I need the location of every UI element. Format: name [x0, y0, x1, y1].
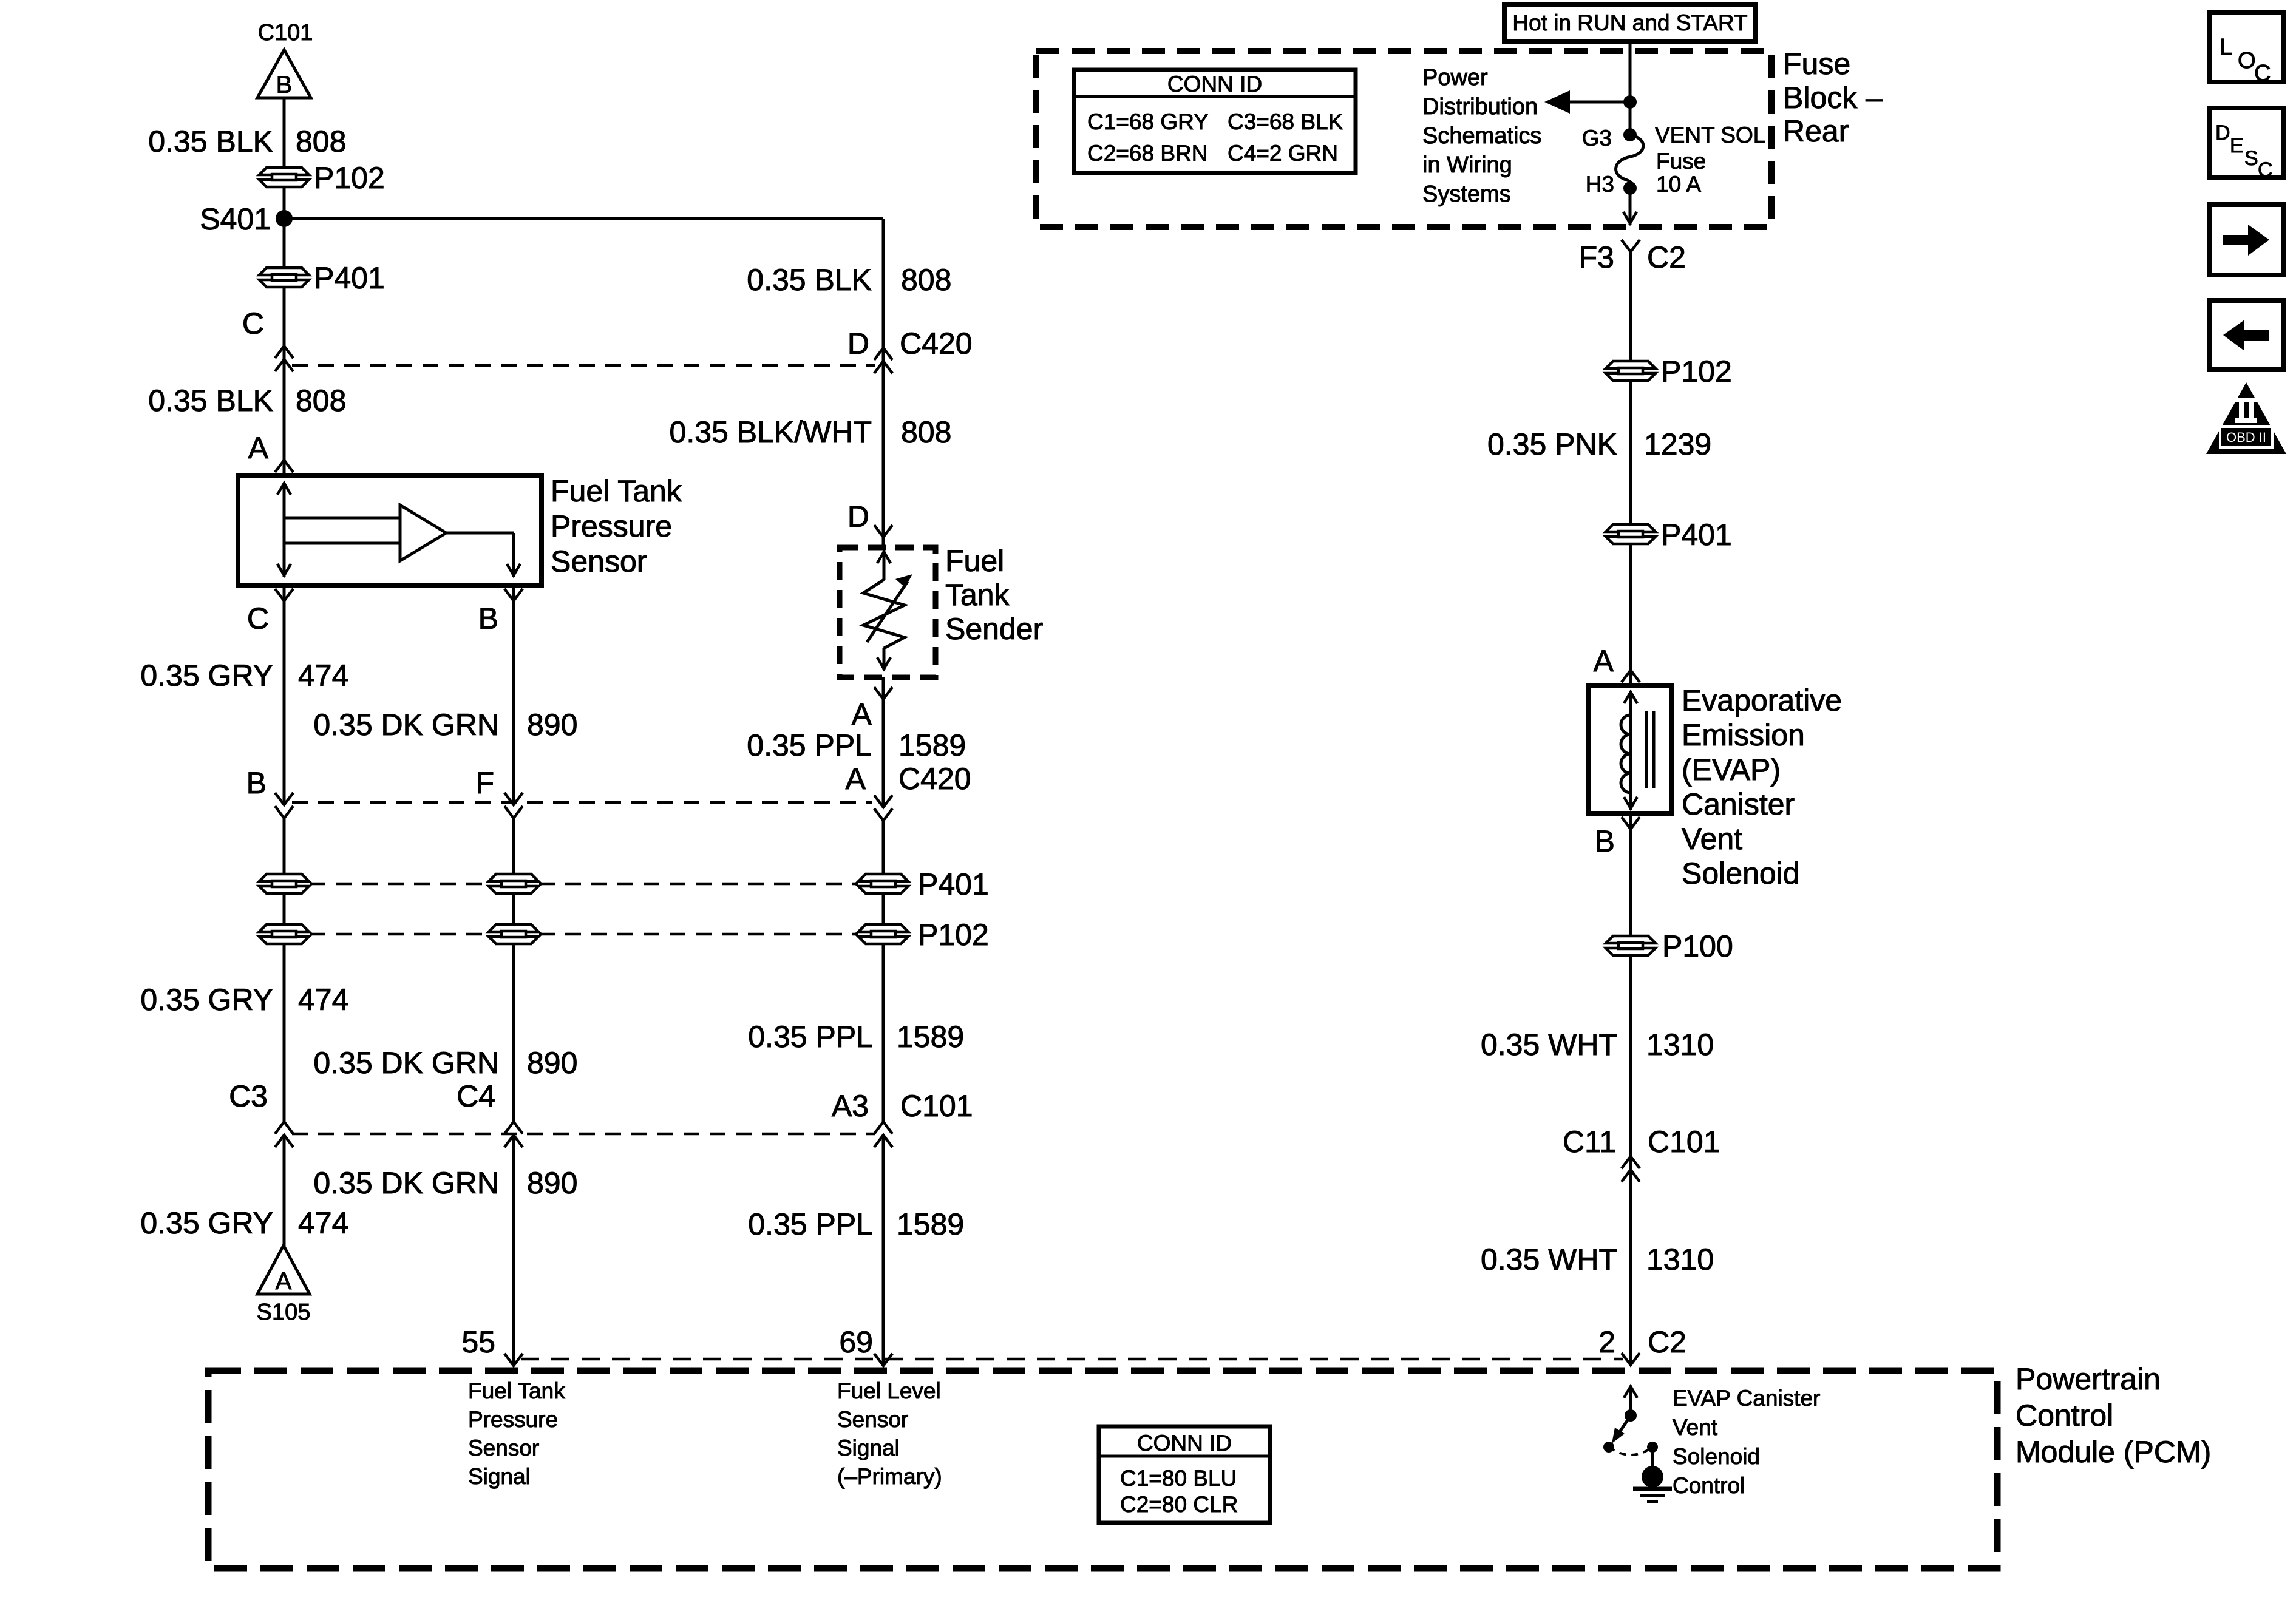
- svg-text:0.35 BLK: 0.35 BLK: [148, 124, 273, 158]
- PCM connector face dashed line: [521, 1358, 1623, 1361]
- wire label 0.35 DK GRN 890 (row1): [313, 708, 577, 742]
- wire label 0.35 PPL 1589 (row3): [748, 1207, 964, 1241]
- svg-text:0.35 DK GRN: 0.35 DK GRN: [313, 1046, 499, 1080]
- svg-text:C3=68 BLK: C3=68 BLK: [1228, 109, 1343, 134]
- wire label 0.35 PPL 1589 (row1): [747, 728, 966, 762]
- pin 55 (PCM fuel tank pressure signal): [461, 1325, 523, 1366]
- power distribution note: [1422, 65, 1541, 207]
- svg-text:474: 474: [298, 983, 348, 1017]
- svg-text:Control: Control: [1673, 1473, 1745, 1498]
- wire label 0.35 GRY 474 (row3): [140, 1206, 348, 1240]
- pin F at C420 (mid): [475, 766, 523, 818]
- svg-text:0.35 PPL: 0.35 PPL: [748, 1207, 873, 1241]
- margin icon OBD II triangle: [2206, 382, 2286, 454]
- svg-text:0.35 WHT: 0.35 WHT: [1481, 1028, 1617, 1062]
- wire from fuse to F3 with arrow: [1623, 188, 1637, 225]
- svg-text:1310: 1310: [1646, 1028, 1714, 1062]
- svg-text:474: 474: [298, 659, 348, 693]
- svg-text:Hot in RUN and START: Hot in RUN and START: [1512, 10, 1747, 35]
- connector P401 (fuel level wire): [858, 867, 989, 901]
- svg-text:C2=68 BRN: C2=68 BRN: [1087, 141, 1207, 166]
- svg-text:0.35 GRY: 0.35 GRY: [140, 983, 273, 1017]
- conn id table (fuse block): [1074, 70, 1356, 173]
- pin 69 (PCM fuel level signal): [839, 1325, 892, 1366]
- arrow to power distribution: [1544, 90, 1637, 114]
- PCM switch label EVAP canister vent solenoid control: [1673, 1386, 1820, 1498]
- conn id table (PCM): [1099, 1426, 1270, 1523]
- pin F3 at C2: [1579, 240, 1686, 274]
- svg-text:Signal: Signal: [837, 1436, 900, 1460]
- svg-text:D: D: [2215, 121, 2230, 144]
- svg-text:Block –: Block –: [1783, 81, 1883, 115]
- svg-text:S105: S105: [257, 1300, 311, 1325]
- svg-text:C2: C2: [1648, 1325, 1686, 1359]
- svg-text:A: A: [248, 431, 269, 465]
- svg-text:OBD II: OBD II: [2226, 430, 2266, 445]
- pin C of sensor: [247, 589, 293, 636]
- svg-text:1310: 1310: [1646, 1242, 1714, 1276]
- svg-text:69: 69: [839, 1325, 873, 1359]
- PCM label: [2016, 1362, 2211, 1469]
- wire label 0.35 GRY 474 (row1): [140, 659, 348, 693]
- svg-text:CONN ID: CONN ID: [1137, 1431, 1232, 1456]
- wire PPL 1589 from sender to C420: [882, 677, 885, 807]
- svg-text:C: C: [2254, 61, 2271, 86]
- pin A of fuel tank sender: [852, 687, 892, 731]
- connector P102 (left): [259, 161, 385, 195]
- svg-text:1589: 1589: [898, 728, 966, 762]
- svg-text:Pressure: Pressure: [551, 509, 672, 543]
- svg-text:C101: C101: [900, 1089, 973, 1123]
- svg-text:Power: Power: [1422, 65, 1488, 90]
- connector P401 (right): [1606, 518, 1732, 552]
- wire label 0.35 DK GRN 890 (row3): [313, 1166, 577, 1200]
- wire label 0.35 WHT 1310 (row2): [1481, 1242, 1714, 1276]
- wire label 0.35 WHT 1310 (row1): [1481, 1028, 1714, 1062]
- svg-text:H3: H3: [1586, 172, 1614, 197]
- wire label 0.35 BLK 808 (upper): [148, 124, 346, 158]
- svg-text:P401: P401: [314, 261, 385, 295]
- margin icon DESC: [2209, 108, 2283, 181]
- svg-text:Module (PCM): Module (PCM): [2016, 1435, 2211, 1469]
- svg-text:0.35 DK GRN: 0.35 DK GRN: [313, 1166, 499, 1200]
- wire label 0.35 BLK 808 (lower): [148, 384, 346, 418]
- svg-text:S401: S401: [200, 202, 271, 236]
- connector P401 (left): [259, 261, 385, 295]
- svg-text:1589: 1589: [897, 1207, 964, 1241]
- wire DK GRN 890 from sensor B to C420: [512, 585, 515, 805]
- ground triangle S105 (to A): [257, 1246, 311, 1325]
- wire label 0.35 GRY 474 (row2): [140, 983, 348, 1017]
- ground symbol inside PCM: [1633, 1447, 1672, 1502]
- svg-text:EVAP Canister: EVAP Canister: [1673, 1386, 1820, 1411]
- wire PPL from C420 to C101: [882, 821, 885, 1123]
- fuel tank sender label: [945, 544, 1043, 646]
- svg-text:0.35 BLK: 0.35 BLK: [148, 384, 273, 418]
- svg-text:Pressure: Pressure: [468, 1407, 558, 1432]
- svg-text:B: B: [276, 72, 293, 98]
- svg-text:O: O: [2238, 48, 2256, 73]
- wire label 0.35 BLK 808 (branch): [747, 263, 951, 297]
- svg-text:A: A: [852, 697, 872, 731]
- wire label 0.35 PNK 1239: [1487, 427, 1711, 461]
- splice S401: [200, 202, 293, 236]
- svg-text:C420: C420: [900, 327, 973, 361]
- svg-text:Fuel Level: Fuel Level: [837, 1378, 941, 1403]
- pin B of vent solenoid: [1595, 817, 1640, 858]
- pin C4 at C101: [457, 1079, 523, 1147]
- hot in run and start box: [1504, 4, 1756, 41]
- wire BLK 808 from C101 to sensor (left vertical): [283, 98, 286, 475]
- pin D at C420 (branch): [847, 327, 973, 373]
- fuse VENT SOL 10A: [1616, 128, 1643, 195]
- wire label 0.35 PPL 1589 (row2): [748, 1020, 964, 1054]
- powertrain control module dashed box: [208, 1371, 1997, 1568]
- svg-text:A: A: [276, 1268, 292, 1295]
- svg-text:Fuse: Fuse: [1783, 47, 1850, 81]
- svg-text:890: 890: [527, 1046, 577, 1080]
- svg-text:B: B: [1595, 824, 1615, 858]
- wire GRY 474 from C101 to S105: [283, 1135, 286, 1246]
- svg-text:C101: C101: [1648, 1125, 1720, 1159]
- svg-text:VENT SOL: VENT SOL: [1655, 123, 1765, 147]
- svg-text:C3: C3: [229, 1079, 268, 1113]
- margin icon LOC: [2209, 13, 2283, 86]
- wire DK GRN 890 from C101 to PCM: [512, 1135, 515, 1366]
- svg-text:0.35 PNK: 0.35 PNK: [1487, 427, 1617, 461]
- in-line connector C420 chevrons (left): [275, 346, 293, 371]
- svg-text:55: 55: [461, 1325, 495, 1359]
- connector P102 row (left and mid): [259, 924, 538, 944]
- svg-text:C2: C2: [1647, 240, 1686, 274]
- svg-text:Fuel Tank: Fuel Tank: [468, 1378, 565, 1403]
- svg-text:1239: 1239: [1644, 427, 1711, 461]
- fuse block label: [1783, 47, 1883, 148]
- svg-text:in Wiring: in Wiring: [1422, 152, 1512, 178]
- svg-text:F: F: [475, 766, 494, 800]
- svg-text:P102: P102: [314, 161, 385, 195]
- svg-text:P401: P401: [1661, 518, 1732, 552]
- wire PPL from C101 to PCM: [882, 1135, 885, 1366]
- svg-text:A: A: [1594, 644, 1614, 678]
- wire BLK 808 branch down to fuel tank sender: [882, 219, 885, 547]
- svg-text:0.35 WHT: 0.35 WHT: [1481, 1242, 1617, 1276]
- svg-text:P100: P100: [1662, 929, 1733, 963]
- PCM pin label fuel tank pressure sensor signal: [468, 1378, 565, 1489]
- svg-text:P102: P102: [918, 918, 989, 952]
- dashed connector line C101 row: [292, 1133, 875, 1136]
- svg-text:C11: C11: [1563, 1125, 1616, 1159]
- wire left from C420 to C101: [283, 818, 286, 1123]
- svg-text:P401: P401: [918, 867, 989, 901]
- fuel tank pressure sensor label: [551, 474, 682, 578]
- connector P102 (right): [1606, 354, 1732, 388]
- connector P100: [1606, 929, 1733, 963]
- wire label 0.35 DK GRN 890 (row2): [313, 1046, 577, 1080]
- svg-text:Sender: Sender: [945, 612, 1043, 646]
- svg-text:808: 808: [296, 124, 346, 158]
- svg-text:0.35 BLK/WHT: 0.35 BLK/WHT: [670, 415, 872, 449]
- wire GRY 474 from sensor C to C420: [283, 585, 286, 805]
- svg-text:Rear: Rear: [1783, 114, 1849, 148]
- svg-text:Sensor: Sensor: [468, 1436, 539, 1460]
- fuse label VENT SOL Fuse 10 A: [1655, 123, 1765, 197]
- svg-text:Solenoid: Solenoid: [1673, 1444, 1760, 1469]
- svg-text:0.35 GRY: 0.35 GRY: [140, 1206, 273, 1240]
- sensor internal wire and op-amp: [277, 483, 520, 577]
- pin B of sensor: [478, 589, 523, 636]
- svg-text:C: C: [242, 307, 264, 341]
- svg-text:Solenoid: Solenoid: [1682, 856, 1800, 890]
- pin C3 at C101: [229, 1079, 293, 1147]
- solenoid label: [1682, 683, 1842, 890]
- svg-text:Distribution: Distribution: [1422, 94, 1538, 120]
- svg-text:Evaporative: Evaporative: [1682, 683, 1842, 717]
- svg-text:Sensor: Sensor: [837, 1407, 908, 1432]
- svg-text:C101: C101: [258, 20, 313, 46]
- svg-text:Fuel: Fuel: [945, 544, 1004, 578]
- svg-text:F3: F3: [1579, 240, 1614, 274]
- svg-text:808: 808: [296, 384, 346, 418]
- fuse block rear dashed box: [1036, 51, 1771, 227]
- pin A of vent solenoid: [1594, 644, 1640, 682]
- svg-text:G3: G3: [1582, 126, 1612, 151]
- svg-text:Vent: Vent: [1673, 1415, 1718, 1440]
- dashed connector line C420 row: [292, 364, 875, 367]
- svg-text:890: 890: [527, 1166, 577, 1200]
- svg-text:Schematics: Schematics: [1422, 123, 1541, 149]
- sender internal variable resistor: [863, 551, 912, 670]
- wire from S401 to fuel level branch (horizontal): [284, 217, 883, 220]
- wire mid from C420 to C101: [512, 818, 515, 1123]
- svg-text:Fuel Tank: Fuel Tank: [551, 474, 682, 508]
- svg-text:(–Primary): (–Primary): [837, 1464, 942, 1489]
- svg-text:Emission: Emission: [1682, 718, 1805, 752]
- svg-text:(EVAP): (EVAP): [1682, 753, 1781, 787]
- svg-text:0.35 BLK: 0.35 BLK: [747, 263, 872, 297]
- svg-text:474: 474: [298, 1206, 348, 1240]
- pin A at C420 (branch): [846, 762, 971, 821]
- svg-text:1589: 1589: [897, 1020, 964, 1054]
- svg-text:C1=68 GRY: C1=68 GRY: [1087, 109, 1209, 134]
- svg-text:0.35 GRY: 0.35 GRY: [140, 659, 273, 693]
- svg-text:D: D: [847, 500, 869, 534]
- pin C11 at C101: [1563, 1125, 1720, 1182]
- svg-text:B: B: [478, 602, 498, 636]
- svg-text:Fuse: Fuse: [1656, 149, 1706, 174]
- PCM internal driver switch: [1603, 1386, 1658, 1455]
- EVAP canister vent solenoid box: [1588, 686, 1671, 813]
- svg-text:0.35 PPL: 0.35 PPL: [748, 1020, 873, 1054]
- svg-text:C1=80 BLU: C1=80 BLU: [1120, 1466, 1237, 1491]
- svg-text:Vent: Vent: [1682, 822, 1742, 856]
- margin icon arrow right: [2209, 205, 2283, 275]
- svg-text:0.35 DK GRN: 0.35 DK GRN: [313, 708, 499, 742]
- solenoid coil internals: [1621, 691, 1654, 810]
- svg-text:Powertrain: Powertrain: [2016, 1362, 2161, 1396]
- pin A3 at C101: [832, 1089, 973, 1147]
- fuel tank sender dashed box: [840, 547, 936, 677]
- wire WHT 1310 from solenoid to PCM: [1629, 813, 1632, 1366]
- svg-text:B: B: [246, 766, 267, 800]
- svg-text:CONN ID: CONN ID: [1167, 72, 1262, 97]
- dashed line P102 row: [310, 933, 858, 936]
- wire label 0.35 BLK/WHT 808: [670, 415, 952, 449]
- svg-text:S: S: [2244, 147, 2258, 170]
- connector triangle C101 (to B): [257, 20, 313, 98]
- svg-text:E: E: [2230, 134, 2244, 157]
- svg-text:C: C: [247, 602, 269, 636]
- wire PNK 1239 from fuse block to solenoid: [1629, 252, 1632, 686]
- svg-text:Sensor: Sensor: [551, 544, 647, 578]
- margin icon arrow left: [2209, 300, 2283, 370]
- dashed connector line C420 lower row: [292, 801, 872, 804]
- svg-text:Signal: Signal: [468, 1464, 531, 1489]
- connector P102 (fuel level wire): [858, 918, 989, 952]
- svg-text:0.35 PPL: 0.35 PPL: [747, 728, 872, 762]
- svg-text:Systems: Systems: [1422, 181, 1511, 207]
- pin 2 at C2 (PCM): [1598, 1325, 1686, 1365]
- svg-text:P102: P102: [1661, 354, 1732, 388]
- svg-text:C: C: [2258, 158, 2273, 181]
- pin A of fuel tank pressure sensor: [248, 431, 293, 472]
- svg-text:Canister: Canister: [1682, 787, 1795, 821]
- svg-text:808: 808: [901, 415, 951, 449]
- dashed line P401 row: [310, 883, 858, 886]
- svg-text:A3: A3: [832, 1089, 869, 1123]
- svg-text:C2=80 CLR: C2=80 CLR: [1120, 1492, 1238, 1517]
- svg-text:Tank: Tank: [945, 578, 1010, 612]
- PCM pin label fuel level sensor signal: [837, 1378, 942, 1489]
- pin B at C420 (left): [246, 766, 293, 818]
- svg-text:C420: C420: [898, 762, 971, 796]
- svg-text:Control: Control: [2016, 1398, 2113, 1432]
- connector P401 row (left and mid): [259, 874, 538, 893]
- pin D of fuel tank sender: [847, 500, 892, 537]
- svg-text:L: L: [2220, 35, 2232, 60]
- svg-text:890: 890: [527, 708, 577, 742]
- fuel tank pressure sensor box: [238, 475, 542, 585]
- svg-text:C4=2 GRN: C4=2 GRN: [1228, 141, 1338, 166]
- svg-text:A: A: [846, 762, 866, 796]
- svg-text:D: D: [847, 327, 869, 361]
- wire from hot box into fuse block: [1629, 41, 1632, 135]
- svg-text:2: 2: [1598, 1325, 1615, 1359]
- svg-text:C4: C4: [457, 1079, 495, 1113]
- svg-text:10 A: 10 A: [1656, 172, 1701, 197]
- svg-text:808: 808: [901, 263, 951, 297]
